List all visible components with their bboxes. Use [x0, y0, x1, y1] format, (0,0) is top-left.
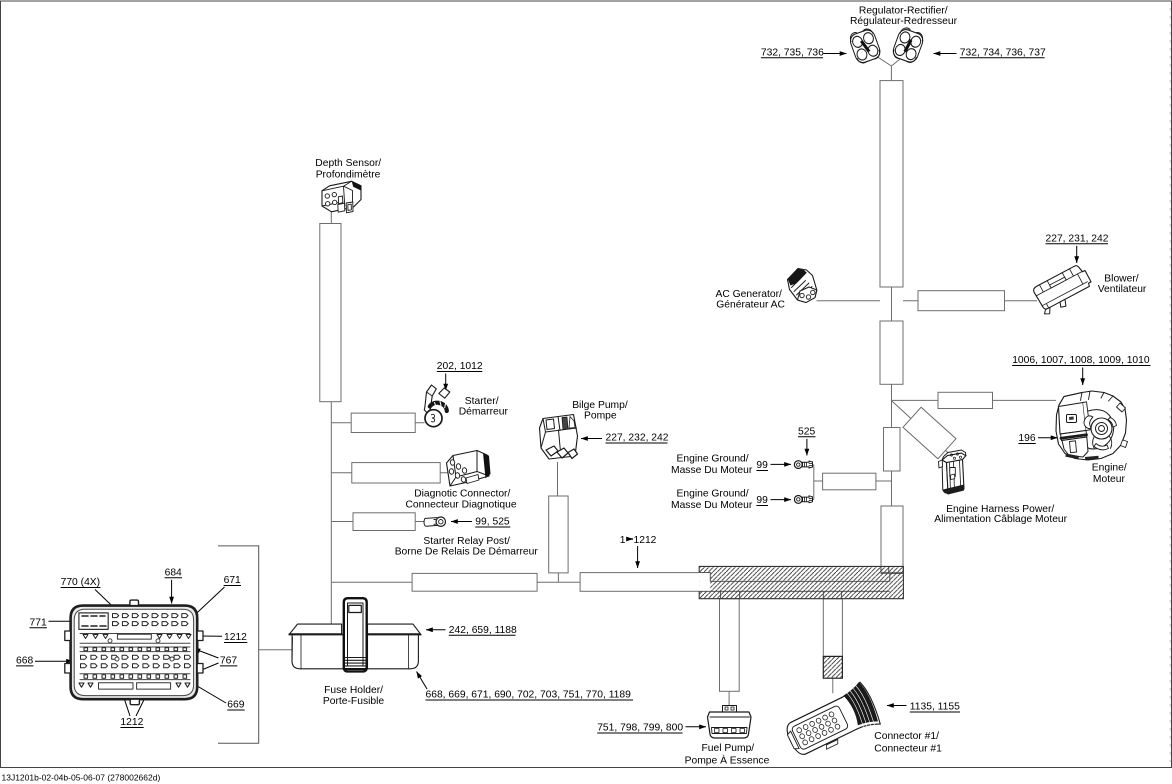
svg-text:Bilge Pump/: Bilge Pump/ [572, 400, 628, 411]
svg-text:732, 735, 736: 732, 735, 736 [761, 47, 824, 58]
connector: regulator-rectifier right (732, 734, 736, 737) [891, 26, 926, 64]
svg-text:Régulateur-Redresseur: Régulateur-Redresseur [850, 16, 958, 27]
svg-text:Porte-Fusible: Porte-Fusible [323, 696, 385, 707]
label: 196 [1018, 433, 1057, 444]
label: 99, 525 (starter relay) [451, 517, 510, 528]
wire: depth sensor to vertical rect [330, 212, 332, 224]
connector: regulator-rectifier left (732, 735, 736) [848, 26, 883, 64]
harness segment: bilge pump vertical [549, 496, 568, 573]
wire: starter relay branch [331, 521, 424, 523]
harness segment C (narrow) [884, 428, 901, 472]
wire: regulator Y-split right [891, 55, 905, 82]
wire: main harness below segment B [891, 384, 893, 427]
wire: fuel pump stem [728, 691, 730, 709]
harness segment: engine harness power (rotated) [903, 407, 956, 459]
label: 227, 231, 242 (blower) [1046, 233, 1109, 263]
label: AC Generator [716, 289, 786, 310]
ring terminal: engine ground upper (99) [794, 461, 812, 469]
label: 668 [16, 655, 73, 666]
harness segment E (run right) [580, 573, 700, 592]
label: 684 [165, 567, 182, 603]
svg-text:Engine Ground/: Engine Ground/ [677, 453, 749, 464]
harness segment: starter branch [351, 413, 415, 432]
label: Fuse Holder [323, 685, 385, 707]
wire: blower branch right [903, 300, 1037, 302]
wire: bracket to fuse holder with junction dot [259, 649, 319, 651]
wire: connector #1 stem [832, 678, 834, 693]
svg-text:Regulator-Rectifier/: Regulator-Rectifier/ [859, 6, 948, 17]
svg-text:525: 525 [798, 426, 815, 437]
wire: starter branch [331, 422, 424, 424]
connector: diagnostic [447, 451, 491, 487]
label: 671 [192, 575, 241, 618]
right tray [368, 624, 422, 635]
ring terminal: starter relay post (99, 525) [424, 517, 445, 526]
label: 525 [798, 426, 816, 455]
svg-text:Générateur AC: Générateur AC [716, 299, 785, 310]
label: 242, 659, 1188 [426, 625, 517, 636]
svg-text:99: 99 [756, 460, 768, 471]
central relay tower [344, 598, 367, 671]
label: 732, 734, 736, 737 [934, 47, 1046, 58]
wire: AC generator branch left [817, 300, 881, 302]
label: Blower [1098, 274, 1147, 295]
harness segment A (main vertical top) [880, 81, 903, 287]
label: Diagnotic Connector [406, 489, 517, 511]
label: 1212 lower [120, 692, 148, 729]
svg-text:242, 659, 1188: 242, 659, 1188 [449, 625, 517, 636]
svg-text:767: 767 [220, 655, 237, 666]
wire: left vertical from depth rect to fuse holder [330, 402, 332, 624]
ring terminal: engine ground lower (99) [794, 496, 812, 504]
engine assembly icon [1056, 391, 1128, 460]
label: Bilge Pump [572, 400, 628, 421]
label: 770 (4X) [61, 577, 118, 611]
label: Connector #1 [874, 731, 942, 755]
wire: engine ground terminals junction vertical [813, 465, 815, 500]
svg-text:Ventilateur: Ventilateur [1098, 284, 1147, 295]
svg-text:684: 684 [165, 567, 182, 578]
svg-text:Masse Du Moteur: Masse Du Moteur [671, 465, 753, 476]
svg-text:99: 99 [756, 495, 768, 506]
harness segment: engine branch [938, 392, 993, 408]
wire: bilge pump stem [557, 462, 560, 582]
svg-text:Borne De Relais De Démarreur: Borne De Relais De Démarreur [395, 546, 539, 557]
band row with slot (1212 upper) [80, 634, 191, 644]
wire: horizontal run left of rect F [331, 581, 412, 583]
label: Engine Ground lower [671, 488, 753, 511]
white entry notch from run rect [699, 573, 710, 592]
side tabs [65, 631, 71, 641]
label: 99 upper [756, 460, 791, 471]
big multi-pin connector (668/669/671/767/770/771/1212/684) [65, 600, 203, 705]
label: 669 [174, 672, 245, 710]
svg-text:Connecteur #1: Connecteur #1 [874, 743, 942, 754]
svg-text:99, 525: 99, 525 [475, 517, 510, 528]
fuel pump connector (751, 798, 799, 800) [708, 706, 752, 739]
harness segment: starter relay branch [353, 513, 415, 531]
svg-text:Starter Relay Post/: Starter Relay Post/ [423, 536, 510, 547]
svg-text:202, 1012: 202, 1012 [437, 361, 483, 372]
svg-text:Fuse Holder/: Fuse Holder/ [324, 685, 383, 696]
svg-text:1212: 1212 [634, 535, 657, 546]
svg-text:1006, 1007, 1008, 1009, 1010: 1006, 1007, 1008, 1009, 1010 [1012, 355, 1150, 366]
label: 1212 upper [157, 632, 247, 643]
svg-text:1212: 1212 [120, 717, 143, 728]
svg-text:Pompe À Essence: Pompe À Essence [685, 754, 770, 767]
svg-text:1: 1 [620, 535, 626, 546]
svg-text:1212: 1212 [224, 632, 247, 643]
label: Starter Relay Post [395, 536, 539, 558]
junction dot in fuse holder [318, 648, 322, 652]
svg-text:668, 669, 671, 690, 702, 703,: 668, 669, 671, 690, 702, 703, 751, 770, … [426, 690, 632, 701]
label: 767 [194, 649, 238, 673]
svg-text:Démarreur: Démarreur [459, 406, 509, 417]
lower small row [80, 674, 190, 680]
harness segment: blower branch [918, 291, 1005, 311]
svg-text:751, 798, 799, 800: 751, 798, 799, 800 [597, 723, 683, 734]
harness segment: depth sensor vertical [320, 224, 341, 402]
label: Engine/Moteur [1092, 462, 1127, 485]
svg-text:Fuel Pump/: Fuel Pump/ [702, 743, 755, 754]
middle small row [80, 647, 190, 652]
top pin field [113, 614, 189, 626]
wire: engine harness power diagonal [892, 401, 952, 456]
svg-text:Pompe: Pompe [584, 410, 617, 421]
svg-text:669: 669 [227, 700, 244, 711]
svg-text:AC Generator/: AC Generator/ [716, 289, 783, 300]
svg-text:Connecteur Diagnotique: Connecteur Diagnotique [406, 499, 517, 510]
wire: regulator Y-split left [876, 56, 891, 66]
svg-text:227, 232, 242: 227, 232, 242 [606, 433, 669, 444]
connector: AC generator [788, 269, 817, 303]
label: Starter [459, 396, 509, 418]
svg-text:227, 231, 242: 227, 231, 242 [1046, 233, 1109, 244]
label: 202, 1012 [437, 361, 483, 391]
label: 227, 232, 242 [581, 433, 669, 444]
left tray [289, 624, 342, 635]
svg-text:668: 668 [16, 655, 33, 666]
label: Engine Ground upper [671, 453, 753, 476]
label: 1006-1010 [1012, 355, 1150, 385]
svg-text:Engine/: Engine/ [1092, 462, 1127, 473]
harness segment: engine ground [823, 473, 876, 490]
hatched segment on connector #1 stem [823, 656, 842, 678]
central big pin field [81, 655, 191, 668]
svg-text:Depth Sensor/: Depth Sensor/ [315, 158, 381, 169]
svg-text:Connector #1/: Connector #1/ [874, 731, 939, 742]
svg-text:Masse Du Moteur: Masse Du Moteur [671, 500, 753, 511]
connector: engine harness power [939, 450, 967, 495]
label: 771 [30, 617, 85, 628]
top/bottom tabs [130, 600, 139, 606]
svg-text:Moteur: Moteur [1093, 474, 1126, 485]
svg-text:Diagnotic Connector/: Diagnotic Connector/ [414, 489, 510, 500]
svg-text:Alimentation Câblage Moteur: Alimentation Câblage Moteur [934, 514, 1067, 525]
svg-text:1135, 1155: 1135, 1155 [910, 702, 960, 713]
connector: depth sensor [322, 181, 361, 213]
wire: engine ground branch [814, 480, 892, 482]
svg-text:770 (4X): 770 (4X) [61, 577, 101, 588]
label: 732, 735, 736 [761, 47, 847, 58]
bracket around big connector [218, 546, 259, 743]
wire: lower ground terminal lead [802, 499, 814, 501]
harness segment: diagnostic branch [352, 463, 440, 483]
svg-text:Profondimètre: Profondimètre [316, 169, 381, 180]
label: 1->1212 [620, 535, 657, 568]
label: Regulator-Rectifier [850, 6, 958, 28]
svg-text:771: 771 [30, 617, 47, 628]
label: Depth Sensor [315, 158, 381, 181]
page border frame [1169, 8, 1171, 762]
wire: engine branch right [892, 399, 1057, 401]
hatched protector band [699, 566, 903, 598]
harness segment D (main vertical into hatch) [881, 506, 903, 572]
label: 751, 798, 799, 800 [597, 723, 706, 734]
svg-text:13J1201b-02-04b-05-06-07 (2780: 13J1201b-02-04b-05-06-07 (278002662d) [2, 773, 161, 783]
fuse holder assembly [289, 598, 421, 671]
connector #1 (1135, 1155) [780, 679, 884, 764]
wire: main harness below segment A to AC junction [891, 287, 893, 321]
connector: starter post (202, 1012) [424, 385, 450, 427]
harness segment B [880, 321, 903, 384]
harness segment: connector #1 vertical [823, 599, 842, 657]
wire: main harness below segment C [891, 471, 893, 506]
top-left box with dashes (771 target) [79, 613, 108, 630]
svg-text:196: 196 [1018, 433, 1035, 444]
svg-text:Engine Ground/: Engine Ground/ [677, 488, 749, 499]
bottom row with two slots (1212 lower) [79, 683, 190, 687]
label: Engine Harness Power [934, 504, 1067, 525]
connector: bilge pump [540, 415, 578, 460]
label: Fuel Pump [685, 743, 770, 767]
connector: blower [1031, 263, 1095, 317]
label: 99 lower [756, 495, 791, 506]
harness segment F (run left) [412, 573, 537, 591]
svg-text:732, 734, 736, 737: 732, 734, 736, 737 [960, 47, 1046, 58]
wire: upper ground terminal lead [802, 464, 814, 466]
wire: between rect F and rect E [537, 581, 580, 583]
svg-text:Starter/: Starter/ [465, 396, 499, 407]
svg-text:Blower/: Blower/ [1104, 274, 1138, 285]
svg-text:671: 671 [224, 575, 241, 586]
label: 668...1189 list [417, 672, 634, 701]
wire: diagnostic branch [331, 472, 448, 474]
harness segment: fuel pump vertical [720, 599, 740, 692]
label: 1135, 1155 [887, 702, 960, 713]
